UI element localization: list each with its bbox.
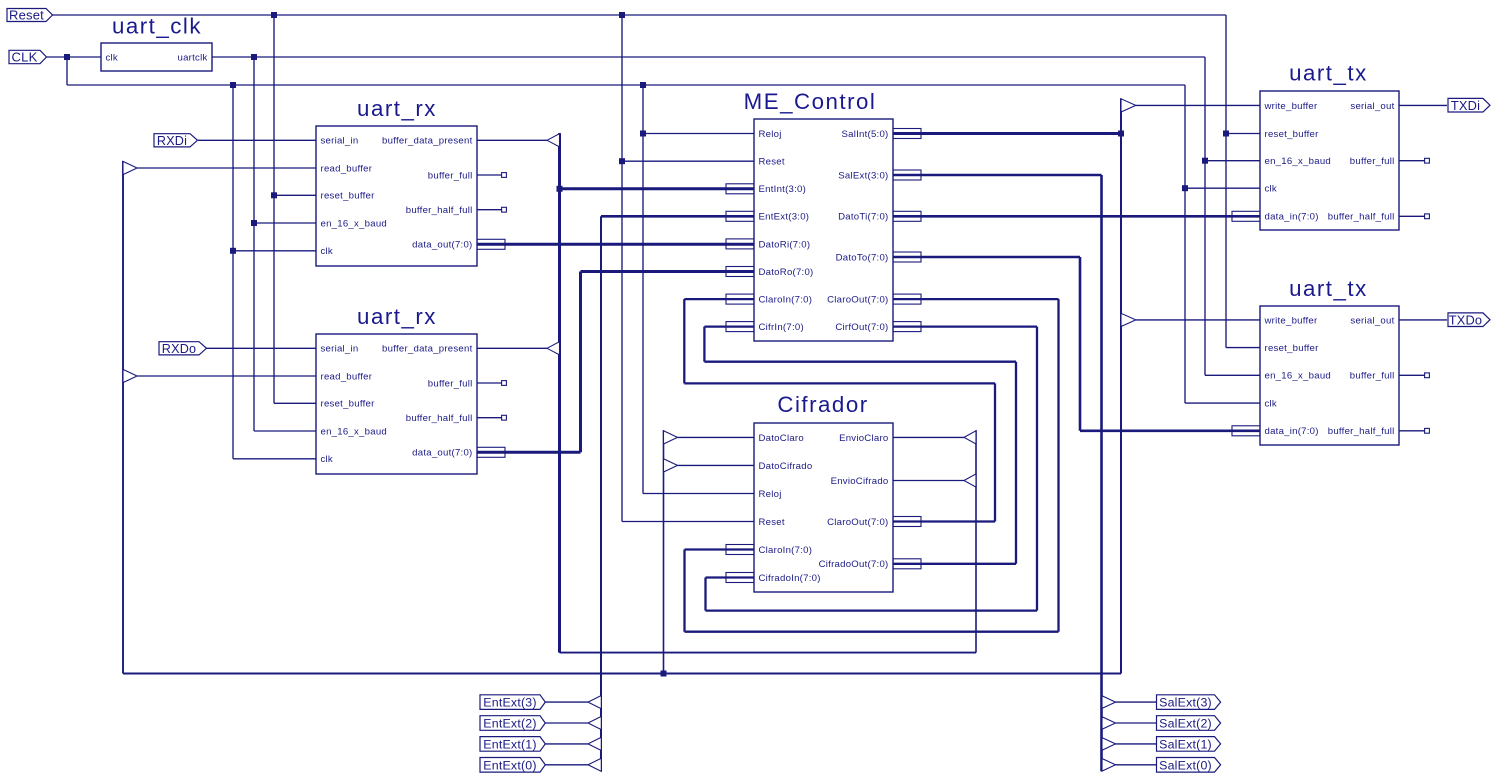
junction Reset x=274 xyxy=(271,12,277,18)
svg-text:DatoRi(7:0): DatoRi(7:0) xyxy=(759,239,811,250)
wire net TXDo from uart_tx U7 serial_out xyxy=(1399,319,1447,321)
bus CirfOut(7:0): horizontal west y=610.6 xyxy=(706,609,1038,611)
wire net TXDi from uart_tx U6 serial_out xyxy=(1399,104,1447,106)
svg-text:buffer_full: buffer_full xyxy=(428,170,473,181)
bus SalExt(3:0): ME_Control SalExt east xyxy=(893,174,1102,177)
svg-text:ClaroIn(7:0): ClaroIn(7:0) xyxy=(759,545,813,556)
svg-text:CifrIn(7:0): CifrIn(7:0) xyxy=(759,322,804,333)
bus ClaroOut_Cif(7:0): Cifrador ClaroOut east xyxy=(893,520,995,522)
bus tap Cifrador CifradoOut(7:0) xyxy=(893,559,921,569)
svg-text:buffer_data_present: buffer_data_present xyxy=(382,344,473,355)
svg-text:DatoTi(7:0): DatoTi(7:0) xyxy=(838,212,888,223)
svg-text:Reset: Reset xyxy=(759,517,785,528)
svg-text:en_16_x_baud: en_16_x_baud xyxy=(1265,156,1332,167)
bus ClaroOut_Cif(7:0): vertical x=995 xyxy=(994,383,996,521)
svg-text:ClaroOut(7:0): ClaroOut(7:0) xyxy=(827,295,888,306)
svg-text:CifradoOut(7:0): CifradoOut(7:0) xyxy=(819,559,889,570)
svg-text:serial_out: serial_out xyxy=(1350,315,1394,326)
svg-text:uartclk: uartclk xyxy=(177,52,207,63)
wire net Reset: vertical drop to uart_tx resets xyxy=(1225,15,1227,348)
wire net CLK: drop from junction xyxy=(66,57,68,85)
svg-text:serial_in: serial_in xyxy=(321,136,359,147)
wire net uartclk: stub to uart_rx U3 en_16_x_baud xyxy=(254,430,316,432)
svg-text:en_16_x_baud: en_16_x_baud xyxy=(321,426,388,437)
svg-text:buffer_half_full: buffer_half_full xyxy=(406,413,473,424)
bus ClaroOut_ME(7:0): stub to Cifrador ClaroIn xyxy=(685,548,755,550)
bus DatoRi(7:0): uart_rx U2 data_out to ME_Control xyxy=(477,243,754,246)
open square uart_rx U2 buffer_full xyxy=(502,173,507,178)
svg-text:data_out(7:0): data_out(7:0) xyxy=(412,448,472,459)
wire net CLK: long horizontal y=85 xyxy=(67,84,1185,86)
wire stub uart_rx U2 buffer_full xyxy=(477,174,502,176)
wire net Reset: stub to uart_tx U6 reset_buffer xyxy=(1226,133,1260,135)
input port EntExt(0) xyxy=(480,758,545,773)
svg-text:RXDi: RXDi xyxy=(157,134,187,148)
svg-text:data_in(7:0): data_in(7:0) xyxy=(1265,212,1319,223)
bus CirfOut(7:0): vertical x=1037 xyxy=(1036,327,1038,611)
arrow buffer_data_present U2 into EntInt ring xyxy=(547,134,560,147)
open square uart_tx U6 buffer_full xyxy=(1425,158,1430,163)
wire net CLK: stub to uart_rx U2 clk xyxy=(233,250,316,252)
bus EntInt(3:0): bottom horizontal y=652.6 xyxy=(560,652,977,654)
wire net EntInt: uart_rx U2 buffer_data_present to arrow xyxy=(477,139,547,141)
wire net Reset: stub to uart_tx U7 reset_buffer xyxy=(1226,347,1260,349)
bus DatoTo(7:0): vertical x=1080 xyxy=(1079,257,1082,431)
open square uart_tx U7 buffer_full xyxy=(1425,373,1430,378)
bus CirfOut(7:0): ME_Control CirfOut east xyxy=(893,325,1037,327)
wire net Reset: stub to Cifrador Reset xyxy=(622,521,754,523)
svg-text:buffer_half_full: buffer_half_full xyxy=(406,205,473,216)
junction SalInt at x=1121 xyxy=(1118,131,1124,137)
open square uart_rx U3 buffer_full xyxy=(502,381,507,386)
wire net EntInt: Cifrador EnvioClaro to arrow xyxy=(893,436,964,438)
bus tap ME_Control ClaroOut(7:0) xyxy=(893,294,921,304)
svg-text:EntExt(2): EntExt(2) xyxy=(483,716,536,730)
wire net SalExt(2) arrow to tag xyxy=(1116,722,1157,724)
svg-text:EntExt(3): EntExt(3) xyxy=(483,696,536,710)
wire net SalInt tap to uart_tx U6 write_buffer xyxy=(1136,104,1260,106)
bus CifradoOut(7:0): vertical x=1016 xyxy=(1015,362,1017,564)
wire net EntInt ring: east vertical x=976 xyxy=(975,430,977,652)
component ME_Control U4 xyxy=(744,89,893,341)
svg-text:clk: clk xyxy=(321,454,333,465)
wire net EntInt: uart_rx U3 buffer_data_present to arrow xyxy=(477,347,547,349)
svg-text:SalInt(5:0): SalInt(5:0) xyxy=(841,129,888,140)
wire net Reset: vertical drop x=274 to uart_rx resets xyxy=(273,15,275,403)
wire net SalExt(3) arrow to tag xyxy=(1116,701,1157,703)
bus ClaroOut_ME(7:0): vertical x=1058.5 xyxy=(1057,299,1059,632)
svg-text:DatoCifrado: DatoCifrado xyxy=(759,461,813,472)
svg-text:SalExt(1): SalExt(1) xyxy=(1159,737,1212,751)
svg-text:reset_buffer: reset_buffer xyxy=(1265,343,1320,354)
arrow EntExt(1) into EntExt bus xyxy=(588,737,601,750)
wire stub uart_tx U7 buffer_half_full xyxy=(1399,430,1425,432)
wire stub uart_rx U3 buffer_half_full xyxy=(477,417,502,419)
arrow EnvioClaro into EntInt ring xyxy=(964,431,976,444)
svg-text:SalExt(0): SalExt(0) xyxy=(1159,758,1212,772)
svg-text:clk: clk xyxy=(1265,184,1277,195)
wire net EntExt(0) tag to arrow xyxy=(545,764,588,766)
svg-text:clk: clk xyxy=(321,246,333,257)
component uart_tx U6 xyxy=(1260,61,1399,231)
svg-text:SalExt(3:0): SalExt(3:0) xyxy=(838,170,888,181)
wire net Reset: stub to ME_Control Reset xyxy=(622,160,754,162)
wire net SalInt ring: east vertical x=1121 xyxy=(1120,98,1122,673)
arrow SalExt bus to SalExt(0) xyxy=(1102,759,1116,772)
wire net uartclk: vertical drop x=254 to uart_rx en_16_x_baud xyxy=(253,57,255,431)
svg-text:buffer_half_full: buffer_half_full xyxy=(1328,212,1395,223)
output port TXDo xyxy=(1448,312,1490,327)
wire net SalInt ring: bottom horizontal y=673.5 xyxy=(123,673,1121,675)
svg-text:serial_out: serial_out xyxy=(1350,101,1394,112)
junction uartclk x=254 xyxy=(251,54,257,60)
bus tap ME_Control CifrIn(7:0) xyxy=(726,322,754,332)
svg-text:buffer_full: buffer_full xyxy=(1350,156,1395,167)
svg-text:write_buffer: write_buffer xyxy=(1264,101,1319,112)
svg-text:uart_rx: uart_rx xyxy=(357,96,437,121)
wire net CLK: vertical drop x=233 to uart_rx clks xyxy=(232,85,234,459)
input port Reset xyxy=(7,8,53,23)
bus EntExt(3:0): vertical x=601 xyxy=(600,216,602,771)
component uart_rx U2 xyxy=(316,96,477,266)
bus CifradoOut(7:0): stub to ME_Control CifrIn xyxy=(704,325,754,327)
input port RXDi xyxy=(154,134,198,148)
bus ClaroOut_ME(7:0): horizontal west y=631.7 xyxy=(685,631,1059,633)
junction SalInt ring x=663.5 xyxy=(661,671,667,677)
arrow EntExt(3) into EntExt bus xyxy=(588,696,601,709)
wire net EntExt(3) tag to arrow xyxy=(545,701,588,703)
arrow SalInt ring to uart_rx U3 read_buffer xyxy=(123,369,137,382)
svg-text:reset_buffer: reset_buffer xyxy=(321,399,376,410)
arrow SalExt bus to SalExt(2) xyxy=(1102,717,1116,730)
arrow EntExt(0) into EntExt bus xyxy=(588,758,601,771)
svg-text:uart_rx: uart_rx xyxy=(357,304,437,329)
output port SalExt(1) xyxy=(1157,737,1221,752)
bus SalExt(3:0): vertical x=1101.5 to bottom ports xyxy=(1100,175,1103,771)
bus CirfOut(7:0): stub to Cifrador CifradoIn xyxy=(706,576,755,578)
input port EntExt(2) xyxy=(480,716,545,731)
bus tap ME_Control SalInt(5:0) xyxy=(893,129,921,139)
svg-text:RXDo: RXDo xyxy=(162,342,196,356)
wire net EntInt: Cifrador EnvioCifrado to arrow xyxy=(893,480,964,482)
bus ClaroOut_ME(7:0): ME_Control ClaroOut east xyxy=(893,298,1059,300)
wire net SalInt ring: west vertical x=123 xyxy=(122,161,124,674)
wire net RXDo to uart_rx U3 serial_in xyxy=(206,347,316,349)
svg-text:ClaroIn(7:0): ClaroIn(7:0) xyxy=(759,295,813,306)
junction Reset at uart_rx U2 reset_buffer xyxy=(271,192,277,198)
svg-text:CirfOut(7:0): CirfOut(7:0) xyxy=(835,322,888,333)
bus ClaroOut_Cif(7:0): horizontal west y=383.4 xyxy=(684,382,995,384)
wire net CLK: stub to Cifrador Reloj xyxy=(643,493,754,495)
wire net SalInt tap to Cifrador DatoClaro xyxy=(678,436,755,438)
component Cifrador U5 xyxy=(754,392,893,592)
wire stub uart_tx U7 buffer_full xyxy=(1399,374,1425,376)
svg-text:EntExt(1): EntExt(1) xyxy=(483,737,536,751)
wire net uartclk: from uart_clk output east xyxy=(212,56,1205,58)
bus EntInt(3:0): vertical x=559.5 xyxy=(558,133,561,653)
bus tap uart_rx U3 data_out(7:0) xyxy=(477,447,505,457)
bus ClaroOut_Cif(7:0): stub to ME_Control ClaroIn xyxy=(684,298,754,300)
wire net Reset: vertical drop x=622 to ME/Cifrador xyxy=(621,15,623,522)
output port TXDi xyxy=(1448,98,1490,113)
bus SalInt(5:0): ME_Control SalInt east to ring xyxy=(893,132,1121,135)
wire stub uart_tx U6 buffer_full xyxy=(1399,160,1425,162)
wire stub uart_tx U6 buffer_half_full xyxy=(1399,215,1425,217)
arrow SalExt bus to SalExt(3) xyxy=(1102,696,1116,709)
wire net SalInt ring: branch vertical x=663.5 (Cifrador taps) xyxy=(663,430,665,673)
bus EntExt(3:0): horizontal to ME_Control EntExt xyxy=(601,215,754,218)
arrow EntExt(2) into EntExt bus xyxy=(588,716,601,729)
bus tap uart_rx U2 data_out(7:0) xyxy=(477,239,505,249)
junction CLK x=67 xyxy=(64,54,70,60)
arrow SalInt ring to Cifrador DatoCifrado xyxy=(664,459,678,472)
svg-text:uart_tx: uart_tx xyxy=(1289,276,1368,301)
junction uartclk at uart_tx U6 en_16_x_baud xyxy=(1202,158,1208,164)
svg-text:data_in(7:0): data_in(7:0) xyxy=(1265,426,1319,437)
output port SalExt(2) xyxy=(1157,716,1221,731)
component uart_clk U1 xyxy=(101,14,212,72)
bus tap ME_Control EntInt(3:0) xyxy=(726,184,754,194)
junction Reset at ME Reset xyxy=(619,158,625,164)
svg-text:read_buffer: read_buffer xyxy=(321,371,373,382)
svg-text:Reloj: Reloj xyxy=(759,489,782,500)
wire stub uart_rx U3 buffer_full xyxy=(477,382,502,384)
wire net uartclk: vertical drop x=1205 to uart_tx en_16_x_baud xyxy=(1204,57,1206,375)
junction CLK at ME Reloj xyxy=(640,131,646,137)
wire net SalInt tap to uart_rx U2 read_buffer xyxy=(137,167,316,169)
svg-text:serial_in: serial_in xyxy=(321,344,359,355)
bus DatoRo(7:0): uart_rx U3 data_out east xyxy=(477,451,581,454)
bus CirfOut(7:0): vertical x=705.5 up to Cifrador CifradoIn xyxy=(704,578,706,611)
wire net EntExt(1) tag to arrow xyxy=(545,743,588,745)
input port EntExt(3) xyxy=(480,695,545,710)
svg-text:SalExt(2): SalExt(2) xyxy=(1159,716,1212,730)
svg-text:Cifrador: Cifrador xyxy=(777,392,868,417)
wire net SalInt tap to Cifrador DatoCifrado xyxy=(678,464,755,466)
svg-text:EnvioCifrado: EnvioCifrado xyxy=(831,476,889,487)
svg-text:buffer_full: buffer_full xyxy=(428,378,473,389)
wire net SalInt tap to uart_rx U3 read_buffer xyxy=(137,375,316,377)
bus ClaroOut_Cif(7:0): vertical x=684.3 up to ME ClaroIn xyxy=(683,299,685,383)
svg-text:DatoClaro: DatoClaro xyxy=(759,433,804,444)
bus EntInt(3:0): horizontal to ME_Control EntInt xyxy=(560,187,755,190)
svg-text:TXDo: TXDo xyxy=(1449,312,1483,327)
svg-text:read_buffer: read_buffer xyxy=(321,163,373,174)
svg-text:DatoRo(7:0): DatoRo(7:0) xyxy=(759,267,814,278)
junction uartclk at uart_rx U2 en_16_x_baud xyxy=(251,220,257,226)
junction CLK x=233 xyxy=(230,82,236,88)
svg-text:ME_Control: ME_Control xyxy=(744,89,877,114)
svg-text:EntExt(3:0): EntExt(3:0) xyxy=(759,212,810,223)
wire net RXDi to uart_rx U2 serial_in xyxy=(198,139,316,141)
open square uart_rx U2 buffer_half_full xyxy=(502,207,507,212)
wire net CLK: vertical drop x=643 to ME/Cifrador Reloj xyxy=(642,85,644,494)
wire net uartclk: stub to uart_tx U6 en_16_x_baud xyxy=(1205,160,1260,162)
wire net CLK: vertical drop x=1185 to uart_tx clks xyxy=(1184,85,1186,403)
arrow SalExt bus to SalExt(1) xyxy=(1102,738,1116,751)
svg-text:data_out(7:0): data_out(7:0) xyxy=(412,240,472,251)
junction CLK at uart_rx U2 clk xyxy=(230,248,236,254)
svg-text:CifradoIn(7:0): CifradoIn(7:0) xyxy=(759,573,821,584)
input port EntExt(1) xyxy=(480,737,545,752)
bus ClaroOut_ME(7:0): vertical x=684.5 up to Cifrador ClaroIn xyxy=(683,550,685,632)
svg-text:Reset: Reset xyxy=(9,8,44,23)
bus DatoTi(7:0): ME_Control DatoTi to uart_tx U6 data_in xyxy=(893,215,1260,218)
open square uart_tx U7 buffer_half_full xyxy=(1425,428,1430,433)
wire net SalInt tap to uart_tx U7 write_buffer xyxy=(1136,319,1260,321)
bus DatoTo(7:0): ME_Control DatoTo east xyxy=(893,256,1080,259)
arrow SalInt ring to Cifrador DatoClaro xyxy=(664,431,678,444)
component uart_tx U7 xyxy=(1260,276,1399,445)
wire net uartclk: stub to uart_rx U2 en_16_x_baud xyxy=(254,222,316,224)
open square uart_rx U3 buffer_half_full xyxy=(502,415,507,420)
svg-text:en_16_x_baud: en_16_x_baud xyxy=(1265,371,1332,382)
bus tap uart_tx U7 data_in(7:0) xyxy=(1232,426,1260,436)
svg-text:EnvioClaro: EnvioClaro xyxy=(839,433,888,444)
bus tap ME_Control DatoRo(7:0) xyxy=(726,267,754,277)
open square uart_tx U6 buffer_half_full xyxy=(1425,214,1430,219)
svg-text:CLK: CLK xyxy=(12,50,38,65)
svg-text:uart_tx: uart_tx xyxy=(1289,61,1368,86)
component uart_rx U3 xyxy=(316,304,477,474)
bus CifradoOut(7:0): Cifrador CifradoOut east xyxy=(893,563,1016,565)
arrow SalInt ring to uart_tx U6 write_buffer xyxy=(1121,99,1136,112)
svg-text:reset_buffer: reset_buffer xyxy=(321,191,376,202)
svg-text:clk: clk xyxy=(1265,399,1277,410)
wire net CLK: stub to uart_tx U7 clk xyxy=(1185,402,1260,404)
junction CLK at uart_tx U6 clk xyxy=(1182,185,1188,191)
svg-text:Reset: Reset xyxy=(759,157,785,168)
wire net CLK: stub to uart_tx U6 clk xyxy=(1185,187,1260,189)
wire net uartclk: stub to uart_tx U7 en_16_x_baud xyxy=(1205,374,1260,376)
input port RXDo xyxy=(159,342,207,356)
bus tap ME_Control CirfOut(7:0) xyxy=(893,322,921,332)
input port CLK xyxy=(9,50,47,65)
output port SalExt(3) xyxy=(1157,695,1221,710)
bus tap Cifrador ClaroIn(7:0) xyxy=(726,545,754,555)
wire net EntExt(2) tag to arrow xyxy=(545,722,588,724)
bus tap Cifrador ClaroOut(7:0) xyxy=(893,517,921,527)
svg-text:reset_buffer: reset_buffer xyxy=(1265,129,1320,140)
junction Reset at uart_tx U6 reset_buffer xyxy=(1223,131,1229,137)
svg-text:Reloj: Reloj xyxy=(759,129,782,140)
junction Reset x=622 xyxy=(619,12,625,18)
wire net CLK: stub to uart_rx U3 clk xyxy=(233,458,316,460)
svg-text:buffer_data_present: buffer_data_present xyxy=(382,136,473,147)
wire net SalExt(1) arrow to tag xyxy=(1116,743,1157,745)
svg-text:clk: clk xyxy=(106,52,118,63)
bus CifradoOut(7:0): vertical x=704.4 up to ME CifrIn xyxy=(703,327,705,362)
svg-text:en_16_x_baud: en_16_x_baud xyxy=(321,218,388,229)
svg-text:SalExt(3): SalExt(3) xyxy=(1159,696,1212,710)
output port SalExt(0) xyxy=(1157,758,1221,773)
bus CifradoOut(7:0): horizontal west y=361.7 xyxy=(704,361,1016,363)
wire net Reset: top horizontal xyxy=(52,14,1226,16)
bus tap ME_Control DatoTi(7:0) xyxy=(893,211,921,221)
svg-text:uart_clk: uart_clk xyxy=(112,14,202,39)
junction CLK x=643 xyxy=(640,82,646,88)
bus tap ME_Control DatoRi(7:0) xyxy=(726,239,754,249)
wire net CLK: tag to uart_clk clk pin xyxy=(46,56,101,58)
wire stub uart_rx U2 buffer_half_full xyxy=(477,209,502,211)
bus DatoRo(7:0): vertical x=580.5 xyxy=(579,272,582,453)
wire net SalExt(0) arrow to tag xyxy=(1116,764,1157,766)
svg-text:TXDi: TXDi xyxy=(1451,98,1480,113)
wire net CLK: stub to ME_Control Reloj xyxy=(643,133,754,135)
svg-text:buffer_full: buffer_full xyxy=(1350,371,1395,382)
svg-text:ClaroOut(7:0): ClaroOut(7:0) xyxy=(827,517,888,528)
bus tap Cifrador CifradoIn(7:0) xyxy=(726,573,754,583)
bus tap ME_Control EntExt(3:0) xyxy=(726,211,754,221)
bus DatoTo(7:0): horizontal to uart_tx U7 data_in xyxy=(1080,429,1260,432)
wire net Reset: stub to uart_rx U3 reset_buffer xyxy=(274,402,316,404)
bus tap uart_tx U6 data_in(7:0) xyxy=(1232,211,1260,221)
bus DatoRo(7:0): horizontal to ME_Control DatoRo xyxy=(581,270,755,273)
svg-text:buffer_half_full: buffer_half_full xyxy=(1328,426,1395,437)
svg-text:EntInt(3:0): EntInt(3:0) xyxy=(759,184,807,195)
bus tap ME_Control DatoTo(7:0) xyxy=(893,252,921,262)
svg-text:write_buffer: write_buffer xyxy=(1264,315,1319,326)
bus tap ME_Control SalExt(3:0) xyxy=(893,170,921,180)
bus tap ME_Control ClaroIn(7:0) xyxy=(726,294,754,304)
junction EntInt at ME EntInt row xyxy=(557,186,563,192)
svg-text:DatoTo(7:0): DatoTo(7:0) xyxy=(836,252,889,263)
svg-text:EntExt(0): EntExt(0) xyxy=(483,758,536,772)
arrow buffer_data_present U3 into EntInt ring xyxy=(547,342,560,355)
wire net Reset: stub to uart_rx U2 reset_buffer xyxy=(274,194,316,196)
arrow SalInt ring to uart_tx U7 write_buffer xyxy=(1121,313,1136,326)
arrow EnvioCifrado into EntInt ring xyxy=(964,474,976,487)
arrow SalInt ring to uart_rx U2 read_buffer xyxy=(123,161,137,174)
